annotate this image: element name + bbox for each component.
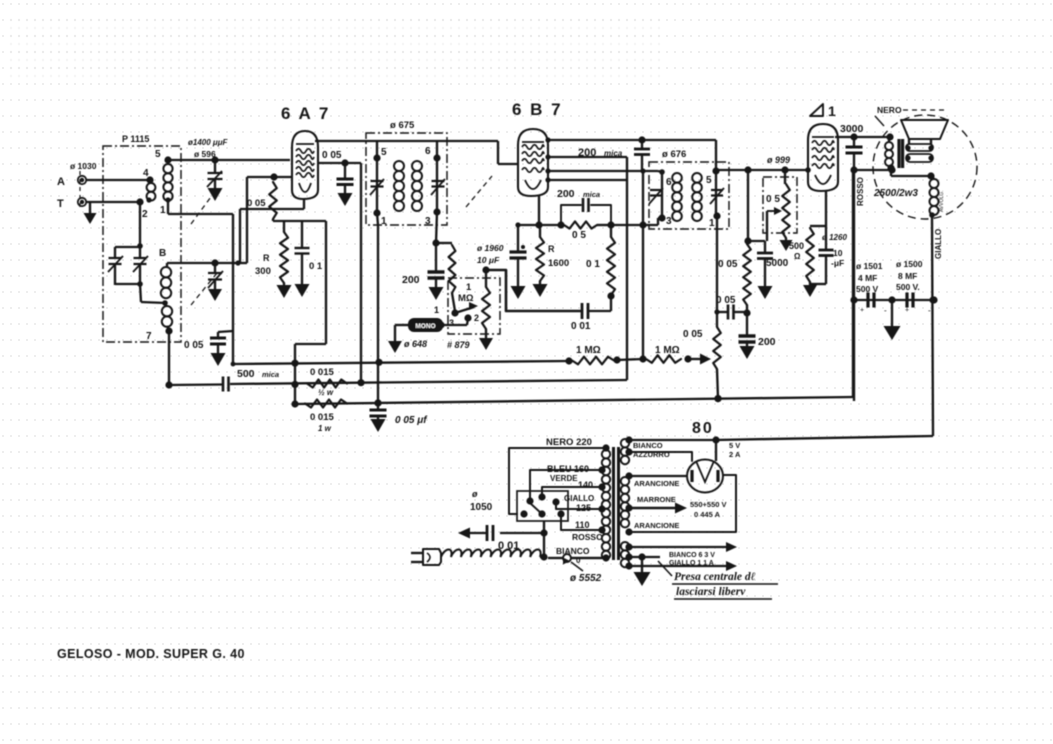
trimmer capacitor IF2 left (649, 188, 663, 204)
svg-text:4: 4 (143, 168, 149, 179)
svg-text:GELOSO - MOD. SUPER G. 40: GELOSO - MOD. SUPER G. 40 (57, 647, 245, 661)
coil L2 section lower to 7 (162, 306, 172, 330)
switch arm (455, 302, 478, 313)
wire field coil top (887, 164, 934, 179)
wire x643 diode down to bus1 (639, 171, 646, 359)
tube 6B7 (518, 129, 548, 196)
svg-text:1 MΩ: 1 MΩ (576, 345, 601, 356)
label 200 detector (402, 274, 420, 286)
wire HV plate left (625, 472, 687, 479)
coil field winding (929, 176, 938, 218)
label 5000 (766, 258, 789, 269)
resistor 0 015 half watt (307, 380, 347, 388)
wire 6.3V lead a (625, 542, 737, 552)
wire 6.3V lead b (625, 561, 737, 571)
label 125 (576, 503, 591, 513)
wire selector to mains (540, 521, 547, 561)
wire voice coil to cone (909, 139, 931, 144)
svg-text:2: 2 (474, 313, 479, 323)
wire 6B7 cathode (535, 196, 542, 229)
svg-text:ROSSO: ROSSO (856, 177, 865, 206)
wire 6B7 diode2 line (545, 177, 627, 182)
label 10 -μF (831, 248, 844, 268)
svg-text:1 w: 1 w (318, 424, 332, 433)
label 200 mica plate (578, 147, 623, 159)
label ø 596 (194, 149, 216, 159)
svg-text:ROSSO: ROSSO (572, 532, 603, 542)
svg-text:0 05: 0 05 (184, 340, 204, 351)
svg-text:NERO: NERO (877, 105, 902, 115)
label 0 1 grid (586, 259, 600, 270)
label ø 1960 (477, 243, 504, 253)
mains plug (411, 549, 441, 565)
svg-text:+: + (905, 307, 909, 314)
svg-text:1: 1 (381, 216, 387, 227)
svg-text:200: 200 (402, 274, 420, 286)
resistor 0.05M IF2 bottom (713, 327, 721, 402)
svg-text:+: + (860, 307, 864, 314)
label 0 1 (309, 261, 323, 272)
label 5V 2A (729, 441, 741, 459)
node detector junction (432, 239, 439, 246)
coil output transformer primary (885, 142, 893, 168)
svg-text:1: 1 (466, 282, 472, 293)
label field coil vertical (939, 190, 945, 212)
resistor 0.1M grid (607, 225, 615, 300)
wire B+ from filament (716, 436, 933, 440)
wire tap 125 (556, 504, 606, 513)
wire IF1 sec bottom to detector (436, 212, 437, 243)
svg-text:VERDE: VERDE (550, 474, 578, 483)
wire MONO left with ground (388, 325, 408, 353)
label 0 05 bottom left (184, 340, 204, 351)
wire IF2 left rail (658, 169, 665, 221)
node A antenna terminal (57, 176, 86, 188)
svg-text:300: 300 (255, 266, 271, 277)
capacitor 5000 with ground (748, 241, 773, 299)
svg-text:200: 200 (758, 336, 776, 348)
bus wire grid return y383 (169, 377, 627, 392)
wire tap 160 (530, 466, 606, 499)
label 0 01 coupling (571, 321, 591, 332)
dash-dot box ø 675 IF1 (366, 133, 447, 225)
wire B+ riser x854 (850, 170, 857, 401)
voltage selector box (517, 491, 568, 521)
label 0 05 grid resistor (247, 198, 266, 209)
label 80 title (692, 420, 714, 437)
label 0 5 tone (766, 194, 780, 205)
svg-text:550+550 V: 550+550 V (690, 500, 727, 509)
label 10 μF (477, 255, 500, 265)
svg-text:1050: 1050 (470, 502, 493, 513)
svg-text:ø 999: ø 999 (767, 155, 790, 165)
svg-text:ø 5552: ø 5552 (570, 573, 602, 584)
label ø 676 (662, 149, 686, 160)
coil secondary 5V (621, 439, 629, 464)
capacitor 0 01 coupling (582, 303, 588, 319)
wire MARRONE arrow (625, 503, 687, 514)
svg-text:140: 140 (578, 480, 593, 490)
svg-text:500: 500 (789, 241, 804, 251)
label ø 1030 (70, 161, 97, 171)
wire IF1 left rail (373, 141, 380, 217)
wire AVC line (518, 221, 565, 228)
label 0 terminal (576, 556, 581, 565)
label ø 1501 4MF (856, 261, 883, 294)
svg-text:7: 7 (146, 331, 152, 342)
label 6 B 7 title (512, 100, 563, 119)
decorative faint strip (4, 18, 660, 78)
label 0 05 coupling (716, 295, 736, 306)
svg-text:ARANCIONE: ARANCIONE (634, 479, 679, 488)
label ROSSO (572, 532, 603, 542)
ground under 0.1 cap (295, 284, 310, 297)
label NERO 220 (546, 437, 592, 448)
coil voice winding lower (905, 154, 933, 162)
capacitor 8MF ø1500 (907, 293, 913, 308)
label ROSSO vertical (856, 177, 865, 206)
ground under pot (479, 338, 493, 350)
wire B top line (167, 259, 235, 266)
svg-text:GIALLO 1 1 A: GIALLO 1 1 A (669, 560, 714, 567)
wire IF2 bottom to resistor (716, 216, 718, 327)
wire tap 110 (561, 516, 606, 534)
coil L3 oscillator 5-1 (163, 156, 172, 202)
wire 41 cathode (825, 191, 827, 226)
label 1 MΩ a (576, 345, 601, 356)
svg-text:1 MΩ: 1 MΩ (655, 345, 680, 356)
svg-text:0 015: 0 015 (310, 412, 334, 423)
svg-text:BIANCO 6 3 V: BIANCO 6 3 V (669, 552, 715, 559)
mains cord (441, 550, 541, 558)
svg-text:-: - (884, 306, 887, 315)
wire cathode 6A7 (240, 199, 304, 262)
wire trimmer loop bottom (115, 243, 168, 306)
node T earth terminal (57, 198, 86, 210)
label MARRONE (637, 495, 676, 504)
label 7 (146, 331, 152, 342)
bus wire B+ y402 (295, 170, 853, 404)
svg-text:NERO 220: NERO 220 (546, 437, 592, 448)
svg-text:2500/2w3: 2500/2w3 (873, 188, 918, 199)
wire x748 down (744, 170, 782, 245)
wire arrow into 0.05 (688, 354, 711, 365)
label ø 1050 (470, 489, 493, 513)
wire MONO to contact2 (443, 318, 468, 325)
capacitor 4MF ø1501 (868, 293, 874, 308)
label 200 bypass (758, 336, 776, 348)
svg-text:T: T (57, 198, 64, 210)
svg-text:B: B (159, 248, 166, 259)
svg-text:3: 3 (666, 216, 672, 227)
svg-text:0 1: 0 1 (586, 259, 600, 270)
wire 6B7 screen line (545, 154, 627, 159)
label ø 999 (767, 155, 790, 165)
wire 6B7 diode line (545, 168, 658, 173)
dash-dot box volume pot (448, 278, 500, 334)
label 1 MΩ b (655, 345, 680, 356)
wire 41 plate (835, 133, 889, 140)
label ø 1400 μμF (188, 138, 229, 147)
dashed gang line IF1 (466, 176, 492, 207)
svg-text:1: 1 (828, 103, 836, 119)
capacitor 0 05 bus with ground (370, 399, 387, 432)
svg-text:200: 200 (557, 188, 575, 200)
label 1 MΩ pot (458, 282, 474, 304)
capacitor 3000 tone (846, 137, 863, 174)
wire IF1 pri bottom to bus (374, 213, 382, 407)
ground under R300 (277, 285, 292, 298)
svg-text:3: 3 (425, 216, 431, 227)
svg-text:mica: mica (604, 149, 623, 158)
trimmer capacitor IF1 left (370, 179, 384, 195)
label ø 1500 8MF (896, 259, 923, 292)
ground center tap (634, 557, 651, 586)
dash-dot box ø 676 IF2 (649, 162, 729, 229)
tube 6A7 (292, 131, 318, 199)
wire top line to 6B7 grid (498, 141, 518, 164)
dash mark near terminals (79, 171, 81, 210)
svg-text:GIALLO: GIALLO (934, 229, 943, 259)
svg-text:-: - (928, 306, 931, 315)
node 7 junction (165, 327, 172, 334)
label GELOSO MOD SUPER G.40 (57, 647, 245, 661)
label 2 (142, 209, 148, 220)
wire 6A7 plate top (315, 140, 498, 142)
switch contact 1 (434, 305, 459, 317)
ground under T wire (84, 202, 97, 224)
tube 41 (808, 124, 838, 191)
label 200 mica feedback (557, 188, 600, 200)
svg-text:0 05 μf: 0 05 μf (395, 415, 428, 426)
label lasciarsi libera (674, 586, 772, 599)
label 41 title (810, 103, 836, 119)
svg-text:0 05: 0 05 (718, 259, 738, 270)
svg-text:5000: 5000 (766, 258, 789, 269)
label 0 015 one watt (310, 412, 334, 433)
wire tap 140 (542, 483, 606, 495)
label 0 5 AVC (572, 230, 586, 241)
resistor 0.05M decoupling (743, 244, 751, 317)
svg-text:500 V.: 500 V. (896, 282, 920, 292)
core output transformer (899, 139, 903, 168)
svg-text:200: 200 (578, 147, 596, 159)
svg-text:0 5: 0 5 (766, 194, 780, 205)
wire plate node to transformer (854, 166, 896, 173)
label 5 left coil (155, 149, 161, 160)
label 3 IF2 (666, 216, 672, 227)
wire B+ bus y402 right end (714, 395, 721, 402)
capacitor 0 05 bottom left with ground (210, 331, 233, 366)
svg-text:# 879: # 879 (447, 340, 470, 350)
capacitor 10uF ø1960 with ground (510, 222, 527, 299)
core power transformer (614, 447, 619, 560)
svg-text:ø 648: ø 648 (404, 339, 427, 349)
svg-text:500 V: 500 V (856, 284, 879, 294)
svg-text:0 015: 0 015 (310, 367, 334, 378)
svg-text:3000: 3000 (840, 123, 864, 135)
svg-text:6 A 7: 6 A 7 (281, 104, 330, 123)
wire tap 220 (509, 444, 610, 514)
resistor series detector (436, 243, 455, 311)
svg-text:6 B 7: 6 B 7 (512, 100, 563, 119)
svg-text:lasciarsi liberν: lasciarsi liberν (676, 586, 746, 598)
label # 879 (447, 340, 470, 350)
coil mains primary (602, 450, 610, 559)
polarity marks (860, 306, 931, 315)
capacitor 200 mica plate (634, 140, 650, 171)
svg-text:5: 5 (381, 147, 387, 158)
label BLEU 160 (547, 464, 589, 474)
capacitor 0.1 (295, 221, 310, 284)
coil IF1 primary (394, 161, 404, 211)
svg-text:ø 676: ø 676 (662, 149, 686, 160)
wire center tap (625, 553, 660, 560)
tube 80 rectifier (687, 460, 723, 493)
wire 6A7 screen line (318, 159, 361, 166)
label 1 left coil (160, 205, 166, 216)
svg-text:P 1115: P 1115 (122, 134, 149, 144)
label ø 648 (404, 339, 427, 349)
svg-text:1: 1 (709, 218, 715, 229)
selector arm (530, 503, 542, 514)
dash-dot circle speaker (873, 115, 977, 219)
svg-text:3: 3 (449, 318, 454, 328)
label R 1600 (548, 244, 569, 269)
svg-text:5: 5 (706, 175, 712, 186)
switch contact 2 (464, 313, 479, 323)
svg-text:MARRONE: MARRONE (637, 495, 676, 504)
switch contact 3 (449, 318, 454, 328)
wire tap 0 (572, 554, 610, 561)
svg-text:5 V: 5 V (729, 441, 740, 450)
svg-text:0 445 A: 0 445 A (694, 510, 721, 519)
label P 1115 (122, 134, 149, 144)
trimmer capacitor CT3 with ground (208, 263, 223, 301)
label 0 05 screen cap (322, 150, 342, 161)
label ø 5552 (563, 558, 602, 585)
resistor R 300 (280, 221, 288, 285)
svg-text:ø 1501: ø 1501 (856, 261, 883, 271)
svg-text:Presa centrale dℓ: Presa centrale dℓ (674, 571, 756, 583)
dash-dot box tone pot (763, 177, 797, 233)
label ø 675 (390, 120, 415, 131)
capacitor 0 05 coupling to IF2 (714, 305, 747, 320)
label BIANCO 6 3 V (669, 552, 715, 559)
svg-text:1600: 1600 (548, 258, 569, 269)
coil IF2 secondary (692, 173, 702, 221)
dashed gang line lower (191, 273, 217, 305)
label 500 mica (237, 368, 279, 380)
trimmer capacitor CT4 with ground (207, 156, 223, 201)
capacitor 10uF ø1260 bypass (810, 226, 834, 284)
coil L1 antenna primary (146, 183, 155, 203)
label 110 (575, 520, 590, 530)
wire 5V lead top (625, 436, 719, 443)
svg-text:0 01: 0 01 (571, 321, 591, 332)
trimmer capacitor CT2 (133, 247, 148, 285)
capacitor 200 bypass with ground (739, 313, 756, 359)
pointer line presa (658, 561, 672, 576)
svg-text:mica: mica (262, 370, 279, 379)
wire x361 down to bus2 (357, 163, 364, 386)
svg-text:A: A (57, 176, 65, 188)
label B (159, 248, 166, 259)
svg-text:0 05: 0 05 (322, 150, 342, 161)
label 0 05 IF2 bottom (683, 329, 703, 340)
svg-text:MΩ: MΩ (458, 293, 474, 304)
label 0 01 mains (498, 540, 519, 552)
svg-text:ø 1960: ø 1960 (477, 243, 504, 253)
svg-text:10 μF: 10 μF (477, 255, 500, 265)
svg-text:500: 500 (237, 368, 255, 380)
wire filament right (715, 440, 717, 461)
svg-text:5: 5 (155, 149, 161, 160)
svg-text:2 A: 2 A (729, 450, 741, 459)
wire 7 down to bus2 (165, 331, 172, 389)
svg-text:2: 2 (142, 209, 148, 220)
svg-text:BIANCO: BIANCO (633, 441, 663, 450)
svg-text:ø 675: ø 675 (390, 120, 415, 131)
capacitor 0.05 screen with ground (337, 163, 354, 206)
label 0 015 half watt (310, 367, 334, 397)
svg-text:ø 1260: ø 1260 (822, 233, 847, 242)
coil voice winding upper (905, 144, 933, 151)
label 500 ohm (789, 241, 804, 261)
svg-text:0 05: 0 05 (247, 198, 266, 209)
label BIANCO AZZURRO (633, 441, 670, 459)
wire 0.01 to grid resistor (588, 297, 611, 311)
label 3000 (840, 123, 864, 135)
wire bus1 mid (617, 355, 647, 362)
svg-text:ø: ø (472, 489, 478, 499)
wire A to coil pin4 (86, 176, 154, 183)
svg-text:AVVOLG.: AVVOLG. (939, 190, 945, 212)
wire IF2 right rail (712, 140, 720, 220)
label 5 IF2 (706, 175, 712, 186)
svg-text:8 MF: 8 MF (898, 271, 917, 281)
svg-text:-μF: -μF (831, 258, 844, 268)
label GIALLO 6 3 (669, 560, 714, 567)
wire jog to grid2 (233, 173, 292, 265)
svg-text:110: 110 (575, 520, 590, 530)
svg-text:4 MF: 4 MF (858, 273, 877, 283)
wire audio to 0.01 cap (486, 270, 580, 311)
potentiometer 1M volume (482, 266, 490, 338)
coil secondary 6V (621, 542, 629, 567)
resistor R 0.05M grid (269, 182, 277, 219)
wire filter bus (854, 296, 938, 303)
coil IF1 secondary (412, 161, 422, 211)
wire 6B7 plate line (545, 136, 716, 143)
wire x627 screen down to bus2 (626, 157, 628, 380)
label ø 1260 (822, 233, 847, 242)
resistor 0 015 one watt (305, 400, 347, 408)
wire pin2 down (139, 202, 141, 247)
wire IF2 left top link (658, 171, 662, 172)
label 3 IF1 (425, 216, 431, 227)
dash-dot box P 1115 (103, 146, 181, 342)
svg-text:0 5: 0 5 (572, 230, 586, 241)
svg-text:10: 10 (833, 248, 843, 258)
capacitor 200 mica feedback loop (561, 198, 611, 225)
trimmer capacitor IF2 right (710, 188, 724, 204)
resistor 0.5M AVC (564, 221, 615, 228)
label GIALLO (564, 494, 594, 503)
svg-text:BIANCO: BIANCO (556, 546, 590, 556)
coil IF2 primary (672, 173, 682, 221)
wire 5V lead lower (625, 448, 692, 461)
